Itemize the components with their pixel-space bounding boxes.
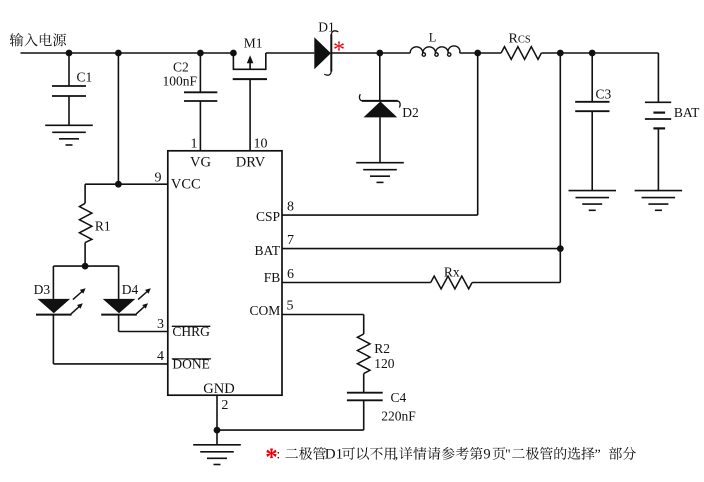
junction: C2 tap on input rail (197, 50, 204, 57)
svg-text:RCS: RCS (509, 32, 531, 47)
svg-text:D1: D1 (318, 19, 335, 34)
svg-text:VCC: VCC (171, 176, 201, 192)
svg-text:BAT: BAT (674, 105, 700, 120)
svg-text:”: ” (595, 448, 601, 463)
svg-text:Rx: Rx (444, 265, 460, 280)
junction: GND node (214, 427, 221, 434)
junction: VCC branch tap on input rail (115, 50, 122, 57)
wire: M1 gate to pin 10 DRV (249, 79, 251, 151)
wire: pin 5 COM to R2 (282, 314, 364, 316)
wire: D3 cathode lead (52, 315, 54, 316)
wire: input rail tap down to VCC node (117, 53, 119, 184)
wire: pin 2 GND lead (216, 395, 218, 430)
svg-text:D2: D2 (402, 105, 419, 120)
ground below BAT (635, 190, 683, 192)
svg-text:*: * (333, 37, 345, 63)
svg-text:7: 7 (287, 233, 294, 248)
svg-text:,: , (395, 448, 399, 463)
wire: VCC node to pin 9 (85, 183, 168, 185)
svg-text:5: 5 (287, 299, 294, 314)
note text: diode D1 usage note (285, 449, 298, 458)
wire: pin 6 FB to Rx (282, 282, 431, 284)
svg-text:100nF: 100nF (163, 74, 198, 89)
svg-text:9: 9 (155, 171, 162, 186)
svg-text:D1: D1 (325, 447, 343, 463)
svg-text:4: 4 (157, 349, 164, 364)
svg-text:C1: C1 (77, 70, 93, 85)
svg-text:D3: D3 (34, 282, 51, 297)
svg-text:FB: FB (264, 270, 281, 285)
wire: pin 8 CSP to sense node (282, 214, 478, 216)
resistor R2 (357, 334, 370, 374)
wire: input rail from source to M1 drain tap (21, 52, 234, 54)
svg-text:D4: D4 (122, 282, 139, 297)
LED D3 emission arrows (73, 292, 82, 300)
wire: D1 cathode to inductor, with D2 tap (331, 52, 410, 54)
resistor Rx (431, 276, 472, 289)
wire: GND node stub (216, 430, 218, 445)
resistor Rcs (501, 47, 541, 60)
capacitor C4 (363, 374, 365, 393)
wire: pin 7 BAT to battery rail (282, 248, 560, 250)
svg-text:C3: C3 (596, 86, 612, 101)
wire: inductor to Rcs (460, 52, 501, 54)
op-amp U1: charger IC body (168, 151, 282, 395)
junction: LED branch node (82, 263, 89, 270)
wire: branch node to D3 (53, 265, 85, 267)
battery BAT (657, 53, 659, 102)
LED D3 (38, 299, 71, 313)
diode D2 (schottky catch diode) (379, 53, 381, 101)
junction: VCC node (115, 181, 122, 188)
transistor M1 gate plate (233, 78, 267, 80)
ground below C1 (45, 124, 93, 126)
svg-text:CSP: CSP (256, 209, 280, 224)
svg-text:L: L (429, 31, 437, 45)
capacitor C2 (199, 53, 201, 92)
svg-text::: : (276, 448, 280, 463)
svg-text:10: 10 (254, 136, 268, 151)
wire: Rx to battery feedback node (472, 282, 560, 284)
inductor L (410, 46, 460, 56)
svg-text:VG: VG (190, 155, 211, 171)
svg-text:C2: C2 (173, 59, 189, 74)
junction: CSP sense tap (L/Rcs node) (474, 50, 481, 57)
transistor M1 source arrow (249, 61, 251, 70)
net label: input power 输入电源 (10, 33, 24, 46)
svg-text:120: 120 (374, 356, 395, 371)
resistor R1 (84, 184, 86, 203)
ground below D2 (356, 162, 404, 164)
svg-text:9: 9 (483, 447, 490, 463)
svg-text:COM: COM (250, 303, 281, 318)
wire: C4 return to GND node (217, 429, 364, 431)
wire: M1 to D1 anode (266, 52, 315, 54)
svg-text:220nF: 220nF (381, 409, 416, 424)
junction: BAT feedback tap (557, 50, 564, 57)
svg-text:GND: GND (203, 381, 234, 397)
svg-text:C4: C4 (391, 390, 407, 405)
svg-text:": " (505, 448, 511, 463)
svg-text:3: 3 (157, 317, 164, 332)
capacitor C1 (68, 53, 70, 86)
LED D4 emission arrows (138, 292, 147, 300)
capacitor C3 (591, 53, 593, 102)
LED D4 (103, 299, 136, 313)
junction: D2 tap on switch node (376, 50, 383, 57)
ground below pin 2 (193, 444, 241, 446)
ground below C3 (569, 190, 617, 192)
svg-text:8: 8 (287, 200, 294, 215)
svg-text:2: 2 (221, 398, 228, 413)
transistor M1 channel bar (233, 53, 265, 69)
svg-text:R2: R2 (374, 341, 390, 356)
junction: C1 tap on input rail (66, 50, 73, 57)
wire: D4 cathode to pin 3 CHRG (118, 315, 120, 332)
svg-text:BAT: BAT (254, 243, 280, 258)
svg-text:DRV: DRV (236, 155, 266, 171)
svg-text:M1: M1 (244, 35, 263, 50)
wire: Rcs to battery rail (541, 52, 658, 54)
wire: D3 cathode to pin 4 DONE (52, 315, 54, 364)
diode D1 (schottky) (314, 37, 331, 69)
svg-text:1: 1 (191, 136, 198, 151)
wire: branch node to D4 (85, 265, 119, 267)
junction: C3 tap (589, 50, 596, 57)
junction: pin 7 node (557, 245, 564, 252)
svg-text:6: 6 (287, 267, 294, 282)
junction: M1 drain tap on input rail (230, 50, 237, 57)
svg-text:R1: R1 (95, 218, 111, 233)
